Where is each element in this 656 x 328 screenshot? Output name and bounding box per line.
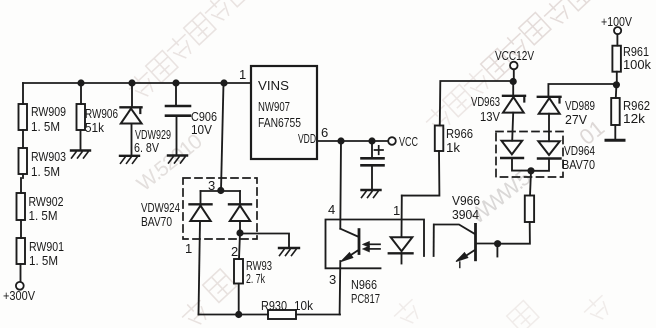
svg-text:3: 3 xyxy=(208,178,215,193)
watermark diagonal CJK chain top-left xyxy=(125,0,254,103)
node VDD-cap xyxy=(368,137,375,144)
light arrow 2 xyxy=(368,248,380,250)
node VCC12V xyxy=(510,78,517,85)
svg-text:6. 8V: 6. 8V xyxy=(134,140,159,155)
wire VD963 to VD964 xyxy=(512,113,513,141)
svg-text:1: 1 xyxy=(393,203,400,218)
svg-text:RW902: RW902 xyxy=(29,194,64,209)
terminal VCC12V xyxy=(510,62,518,70)
wire VDW924 pin2 down xyxy=(239,221,241,233)
svg-text:1: 1 xyxy=(239,67,246,82)
light arrow 1 xyxy=(368,243,380,245)
ground below C906 xyxy=(168,154,187,156)
ground below RW906 xyxy=(71,149,90,151)
svg-text:3904: 3904 xyxy=(452,207,479,222)
resistor R966 xyxy=(435,126,444,152)
wire VCC12V down to VD963 xyxy=(512,82,514,96)
opto LED xyxy=(391,237,413,251)
terminal +300V xyxy=(16,282,24,290)
svg-text:6: 6 xyxy=(321,125,328,140)
diode VDW924 b xyxy=(229,203,251,205)
capacitor C polarized xyxy=(362,157,384,160)
svg-text:100k: 100k xyxy=(623,57,651,72)
resistor R961 xyxy=(612,46,621,72)
zener VD963 xyxy=(503,95,525,97)
svg-text:PC817: PC817 xyxy=(351,291,380,306)
V966 emitter xyxy=(461,250,475,259)
svg-text:RW906: RW906 xyxy=(85,106,118,121)
svg-text:10k: 10k xyxy=(294,298,313,313)
terminal +100V xyxy=(614,27,621,34)
wire pin6 VDD xyxy=(317,140,391,142)
svg-text:2. 7k: 2. 7k xyxy=(246,271,265,286)
phototransistor emitter xyxy=(344,250,359,260)
svg-text:N966: N966 xyxy=(351,277,377,292)
ground below R962 xyxy=(606,139,624,142)
wire RW906 branch xyxy=(80,83,83,150)
wire VDW924 top xyxy=(201,190,241,192)
optocoupler N966 box xyxy=(326,220,425,269)
node VDW924 pin3 xyxy=(217,187,224,194)
watermark diagonal CJK chain right (bottom part faint) xyxy=(422,65,495,136)
VDW924 dashed box xyxy=(183,178,257,239)
V966 base bar xyxy=(474,224,477,259)
svg-text:RW909: RW909 xyxy=(31,104,66,119)
VD964 dashed box xyxy=(496,132,563,178)
wire R962 to ground xyxy=(614,125,616,140)
svg-text:1. 5M: 1. 5M xyxy=(31,119,60,134)
resistor RW901 xyxy=(17,238,26,264)
svg-text:NW907: NW907 xyxy=(258,99,290,114)
node V966 base xyxy=(494,240,501,247)
wire pin2 to ground xyxy=(240,234,289,248)
svg-text:+300V: +300V xyxy=(3,288,35,303)
wire R966 top to VCC12V node xyxy=(440,81,513,126)
svg-text:1k: 1k xyxy=(446,140,461,155)
phototransistor collector xyxy=(340,229,358,237)
svg-text:VCC: VCC xyxy=(399,134,418,149)
node bus-RW906 xyxy=(77,79,84,86)
wire common node to resistor xyxy=(530,171,531,196)
resistor RW93 xyxy=(234,259,243,284)
wire VDW929 branch xyxy=(131,83,134,155)
zener VDW929 xyxy=(121,106,142,108)
wire opto pin3 down xyxy=(339,261,342,315)
svg-text:RW901: RW901 xyxy=(29,239,64,254)
wire R966 bottom to LED xyxy=(402,151,440,196)
resistor RW903 xyxy=(19,148,28,174)
wire R961 to node xyxy=(616,72,618,85)
svg-text:VDD: VDD xyxy=(298,131,316,146)
svg-text:27V: 27V xyxy=(565,112,587,127)
svg-text:RW903: RW903 xyxy=(31,149,66,164)
wire bottom xyxy=(199,314,341,316)
ground right of RW93 xyxy=(279,247,299,249)
svg-text:VD989: VD989 xyxy=(565,98,595,113)
svg-text:VINS: VINS xyxy=(258,78,289,93)
wire VD989 to VD964 xyxy=(548,114,550,142)
diode VDW924 a xyxy=(190,203,212,205)
watermark diagonal CJK chain top-right xyxy=(481,0,595,81)
watermark faint bottom edge xyxy=(390,291,615,328)
svg-text:BAV70: BAV70 xyxy=(562,157,595,172)
node bus-C906 xyxy=(172,79,179,86)
capacitor C906 xyxy=(166,105,190,108)
stub below base node xyxy=(496,244,498,257)
transistor V966 xyxy=(477,243,498,245)
ground below VDW929 xyxy=(120,155,139,157)
svg-text:3: 3 xyxy=(329,272,336,287)
node bottom RW93 xyxy=(235,311,242,318)
svg-text:R930: R930 xyxy=(261,298,287,313)
V966 collector stub down xyxy=(433,225,435,257)
node R961-R962 xyxy=(613,81,620,88)
wire cap branch xyxy=(371,141,373,190)
svg-text:VDW924: VDW924 xyxy=(141,200,180,215)
svg-text:10V: 10V xyxy=(191,122,212,137)
wire pin2 to RW93 xyxy=(239,233,240,259)
resistor RW902 xyxy=(17,193,26,220)
opto LED cathode stub xyxy=(401,253,403,263)
svg-text:VD963: VD963 xyxy=(471,94,500,109)
watermark CJK glyph near RW93 bottom xyxy=(178,269,236,328)
wire VDW924 pin1 down xyxy=(199,221,201,315)
op-amp U1 : IC NW907 FAN6755 box xyxy=(251,66,317,159)
svg-text:1. 5M: 1. 5M xyxy=(29,208,58,223)
svg-text:FAN6755: FAN6755 xyxy=(258,115,301,130)
node VD964 common xyxy=(527,167,534,174)
opto LED anode wire xyxy=(401,196,403,237)
svg-text:BAV70: BAV70 xyxy=(141,214,172,229)
node VDD-opto4 xyxy=(337,137,344,144)
resistor RW906 xyxy=(77,104,86,130)
svg-text:VCC12V: VCC12V xyxy=(495,48,534,63)
wire node down to R962 xyxy=(615,85,618,98)
wire RW93 to bottom xyxy=(238,284,240,315)
svg-text:12k: 12k xyxy=(623,111,646,126)
svg-text:1. 5M: 1. 5M xyxy=(31,164,60,179)
resistor R below VD964 xyxy=(525,196,534,223)
diode VD964 b xyxy=(538,141,560,155)
svg-text:VD964: VD964 xyxy=(564,143,595,158)
V966 collector xyxy=(434,225,475,235)
node bus-VDW929 xyxy=(128,79,135,86)
phototransistor bar xyxy=(358,230,361,254)
svg-text:13V: 13V xyxy=(480,109,500,124)
wire C906 branch xyxy=(175,83,178,155)
wire left chain vertical xyxy=(21,83,24,282)
terminal VCC xyxy=(388,137,396,145)
wires VD964 to common node xyxy=(512,158,549,171)
wire VDD junction down to opto pin4 xyxy=(339,141,342,229)
ground below cap xyxy=(362,189,381,191)
wire top bus xyxy=(23,82,251,84)
svg-text:4: 4 xyxy=(328,202,335,217)
svg-text:V966: V966 xyxy=(452,193,480,208)
wire resistor to V966 base node xyxy=(498,222,530,244)
wire node to VD989 xyxy=(548,84,616,97)
svg-text:+100V: +100V xyxy=(601,14,632,29)
resistor RW909 xyxy=(19,104,28,130)
svg-text:1: 1 xyxy=(185,241,192,256)
node pin2 xyxy=(236,229,243,236)
svg-text:1. 5M: 1. 5M xyxy=(29,253,58,268)
wire down to VDW924 pin3 xyxy=(221,83,224,191)
svg-text:51k: 51k xyxy=(85,120,104,135)
svg-text:2: 2 xyxy=(231,244,238,259)
svg-text:R966: R966 xyxy=(446,126,473,141)
resistor R930 xyxy=(268,310,296,319)
diode VD964 a xyxy=(502,141,523,155)
node bus-VDW924 xyxy=(220,79,227,86)
zener VD989 xyxy=(538,96,561,98)
resistor R962 xyxy=(611,98,620,125)
